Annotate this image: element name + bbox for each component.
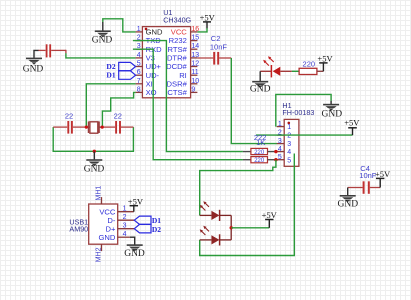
ground GND below crystal [84, 151, 105, 174]
svg-text:1: 1 [137, 26, 141, 33]
svg-text:5: 5 [287, 157, 291, 164]
svg-text:220: 220 [254, 150, 265, 156]
wire cap to V3 pin4 [66, 53, 136, 58]
svg-text:VCC: VCC [171, 28, 188, 37]
wire TXD (pin2) down through U1 to H1 pin4 row [133, 41, 243, 152]
node LED junction [230, 226, 233, 229]
node H1 pin4 junction [274, 150, 277, 153]
svg-text:MH2: MH2 [95, 247, 102, 262]
U1 left pin numbers [137, 26, 141, 94]
svg-text:GND: GND [338, 200, 359, 210]
U1 right pin stubs 16-9 [191, 32, 198, 93]
wire H1 pin2 row to +5V [256, 134, 353, 136]
node D1 flag at USB D- [134, 216, 151, 224]
node H1 pin5 junction [274, 158, 277, 161]
svg-text:1K: 1K [256, 138, 265, 147]
wire crystal bottom U to ground [53, 127, 133, 151]
node D2 flag at USB D+ [134, 224, 151, 233]
power +5V at VCC [200, 13, 216, 29]
wire H1 area down right rail to LED2 loop [200, 154, 295, 256]
wire RXD (pin3) down through U1 to H1 pin5 row [133, 49, 243, 160]
svg-text:5: 5 [137, 61, 141, 68]
svg-text:D1: D1 [106, 70, 115, 79]
power +5V at USB VCC [128, 196, 144, 211]
USB connector USB1 AM90 body [89, 204, 118, 244]
USB1 reference labels [69, 217, 88, 233]
crystal Y1 [86, 121, 102, 133]
svg-text:3: 3 [278, 138, 282, 145]
wire H1 pin5 jog down to LED1 anode [200, 160, 276, 216]
wire LED cathodes common [230, 215, 232, 240]
header H1 FH-00183 body [284, 119, 299, 166]
svg-text:9: 9 [191, 86, 195, 93]
svg-text:1: 1 [287, 124, 291, 131]
svg-text:+5V: +5V [200, 13, 216, 23]
svg-text:15: 15 [191, 35, 199, 42]
U1 reference labels [163, 8, 191, 25]
power +5V right of H1 [344, 118, 360, 136]
capacitor (V3 decoupling, unnamed) [38, 44, 66, 57]
svg-text:GND: GND [124, 249, 145, 259]
U1 left pin stubs 1-8 [136, 32, 143, 93]
svg-text:4: 4 [278, 146, 282, 153]
svg-text:GND: GND [23, 65, 44, 75]
USB pin stubs 1-4 [118, 212, 135, 238]
power +5V at C4 [375, 169, 391, 187]
svg-text:2: 2 [287, 133, 291, 140]
svg-text:7: 7 [137, 78, 141, 85]
wire LED junction to +5V [231, 227, 269, 229]
resistor 220 upper (TXD row) [243, 148, 276, 156]
svg-text:+5V: +5V [128, 196, 144, 206]
svg-text:4: 4 [137, 52, 141, 59]
svg-text:5: 5 [278, 154, 282, 161]
LED D? upper (TX indicator) [200, 201, 232, 221]
wire XI (pin7) to crystal left [86, 84, 135, 127]
svg-text:+5V: +5V [262, 210, 278, 220]
ground GND top-left (pin1) [92, 22, 113, 46]
svg-text:+5V: +5V [375, 169, 391, 179]
U1 right pin names [166, 28, 187, 98]
resistor 220 lower (RXD row) [243, 157, 276, 165]
node D2 flag at UD+ [119, 62, 136, 70]
U1 left pin names [146, 28, 163, 98]
USB pin numbers [123, 206, 127, 239]
pin MH1 stub [101, 197, 103, 204]
svg-text:2: 2 [123, 214, 127, 221]
H1 pin stubs 1-5 [277, 127, 285, 160]
svg-text:GND: GND [250, 84, 271, 94]
power +5V at LEDs [262, 210, 278, 228]
svg-text:RTS#: RTS# [168, 45, 188, 54]
svg-text:GND: GND [99, 233, 116, 242]
svg-text:GND: GND [84, 165, 105, 175]
ground GND right of H1 [322, 101, 343, 120]
op-amp U1 CH340G body [142, 27, 190, 98]
USB pin names [99, 207, 116, 242]
wire H1 pin1 up to GND [276, 94, 331, 126]
U1 right pin numbers [191, 26, 199, 94]
svg-text:GND: GND [92, 36, 113, 46]
svg-text:MH1: MH1 [95, 186, 102, 201]
svg-text:12: 12 [191, 61, 199, 68]
svg-text:22: 22 [114, 112, 122, 121]
ground GND at LED anode [250, 71, 271, 94]
capacitor C2 10nF [197, 34, 231, 65]
svg-text:GND: GND [146, 28, 163, 37]
svg-text:GND: GND [322, 109, 343, 119]
power +5V at LED resistor [317, 54, 333, 72]
LED power indicator (top right) [260, 56, 292, 77]
svg-text:4: 4 [123, 231, 127, 238]
H1 reference labels [282, 101, 314, 117]
svg-text:1: 1 [278, 121, 282, 128]
svg-text:D2: D2 [152, 225, 161, 234]
svg-text:10nF: 10nF [210, 42, 228, 51]
svg-text:XO: XO [146, 88, 157, 97]
ground GND at V3 cap [23, 50, 44, 74]
svg-text:3: 3 [287, 141, 291, 148]
svg-text:220: 220 [254, 158, 265, 164]
svg-text:11: 11 [191, 69, 198, 76]
svg-text:6: 6 [137, 69, 141, 76]
ground GND at USB pin4 [124, 237, 145, 259]
svg-text:CTS#: CTS# [167, 88, 187, 97]
node crystal left junction [85, 126, 88, 129]
svg-text:10: 10 [191, 78, 199, 85]
capacitor 22 left [53, 112, 86, 134]
node crystal right junction [101, 126, 104, 129]
wire C2 down to H1 pin3 [231, 58, 277, 144]
H1 outer pin numbers [278, 121, 282, 161]
resistor 220 (LED series) [299, 60, 323, 75]
svg-text:FH-00183: FH-00183 [282, 108, 314, 117]
wire XO (pin8) staircase to crystal right [102, 92, 135, 127]
node crystal ground junction [93, 150, 96, 153]
capacitor C4 10nF [348, 164, 381, 194]
svg-text:220: 220 [303, 60, 316, 69]
ground GND at C4 [338, 188, 359, 210]
H1 inner pin numbers [287, 124, 291, 164]
wire LED cathode to resistor [292, 70, 299, 72]
node D1 flag at UD- [119, 71, 136, 80]
svg-text:22: 22 [65, 112, 73, 121]
svg-text:14: 14 [191, 43, 199, 50]
svg-text:AM90: AM90 [69, 225, 88, 234]
svg-text:CH340G: CH340G [163, 15, 191, 24]
svg-text:DCD#: DCD# [166, 62, 187, 71]
capacitor 22 right [102, 112, 133, 134]
svg-text:1: 1 [123, 206, 127, 213]
svg-text:+5V: +5V [317, 54, 333, 64]
svg-text:+5V: +5V [344, 118, 360, 128]
svg-text:4: 4 [287, 149, 291, 156]
wire U1 pin1 to GND flag [103, 19, 136, 32]
pin MH2 stub [101, 244, 103, 251]
svg-text:3: 3 [123, 223, 127, 230]
wire U1 pin16 VCC to +5V [197, 28, 207, 32]
LED D? lower (RX indicator) [200, 226, 232, 246]
svg-text:8: 8 [137, 86, 141, 93]
